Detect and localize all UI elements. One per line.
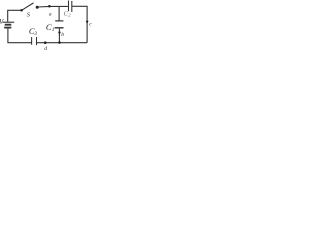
wire right vertical [72, 6, 87, 42]
capacitor C1 top plate [55, 20, 63, 22]
wire C1 branch bottom [58, 29, 60, 43]
svg-text:d: d [44, 46, 47, 52]
battery V short plate 2 [4, 27, 11, 29]
switch S fixed contact dot [36, 6, 39, 9]
battery V short plate 1 [5, 24, 12, 26]
node b junction dot [58, 41, 61, 44]
label C2 [64, 11, 72, 18]
wire top-right segment [38, 5, 68, 8]
node a dot [48, 5, 51, 8]
capacitor C3 right plate [36, 37, 38, 45]
capacitor C2 right plate [71, 1, 73, 12]
wire bottom segment right of C3 [37, 42, 88, 44]
wire left vertical below battery [8, 28, 32, 42]
capacitor C3 left plate [31, 37, 33, 45]
svg-text:c: c [89, 21, 92, 27]
svg-text:a: a [49, 11, 52, 17]
capacitor C2 left plate [68, 1, 70, 12]
wire top-left segment [8, 10, 22, 22]
svg-text:1: 1 [52, 27, 55, 33]
svg-text:2: 2 [68, 12, 71, 17]
arrow c (downward) [86, 21, 89, 25]
node d dot [44, 41, 47, 44]
switch S moving contact dot [20, 9, 23, 12]
arrow b (downward) [58, 32, 61, 35]
battery V long plate [2, 21, 14, 23]
wire C1 branch top [58, 7, 60, 21]
capacitor C1 bottom plate [55, 27, 64, 29]
switch S lever [22, 3, 34, 10]
svg-text:S: S [27, 11, 31, 18]
svg-text:3: 3 [33, 31, 37, 37]
svg-text:b: b [61, 32, 64, 38]
